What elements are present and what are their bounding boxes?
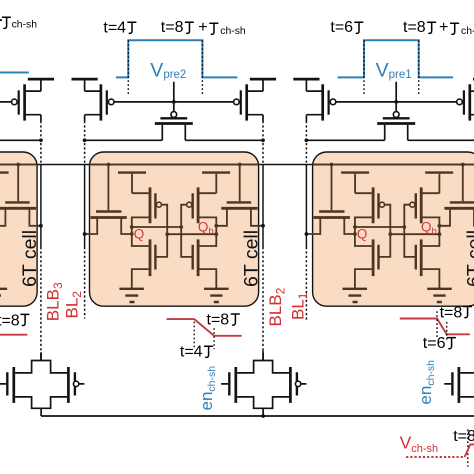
svg-text:t=4: t=4: [180, 343, 203, 360]
svg-text:t=8: t=8: [453, 428, 474, 445]
svg-text:t=8: t=8: [0, 313, 20, 330]
svg-text:+: +: [439, 19, 448, 36]
svg-text:ch-sh: ch-sh: [12, 20, 38, 31]
svg-text:ch-sh: ch-sh: [220, 26, 246, 37]
svg-text:t=8: t=8: [161, 19, 184, 36]
svg-text:t=8: t=8: [440, 304, 463, 321]
svg-text:t=6: t=6: [330, 19, 353, 36]
svg-text:t=6: t=6: [423, 335, 446, 352]
svg-text:+: +: [198, 19, 207, 36]
svg-text:t=4: t=4: [103, 19, 126, 36]
svg-text:t=8: t=8: [207, 312, 230, 329]
svg-text:ch-sh: ch-sh: [461, 26, 474, 37]
svg-text:t=8: t=8: [403, 19, 426, 36]
